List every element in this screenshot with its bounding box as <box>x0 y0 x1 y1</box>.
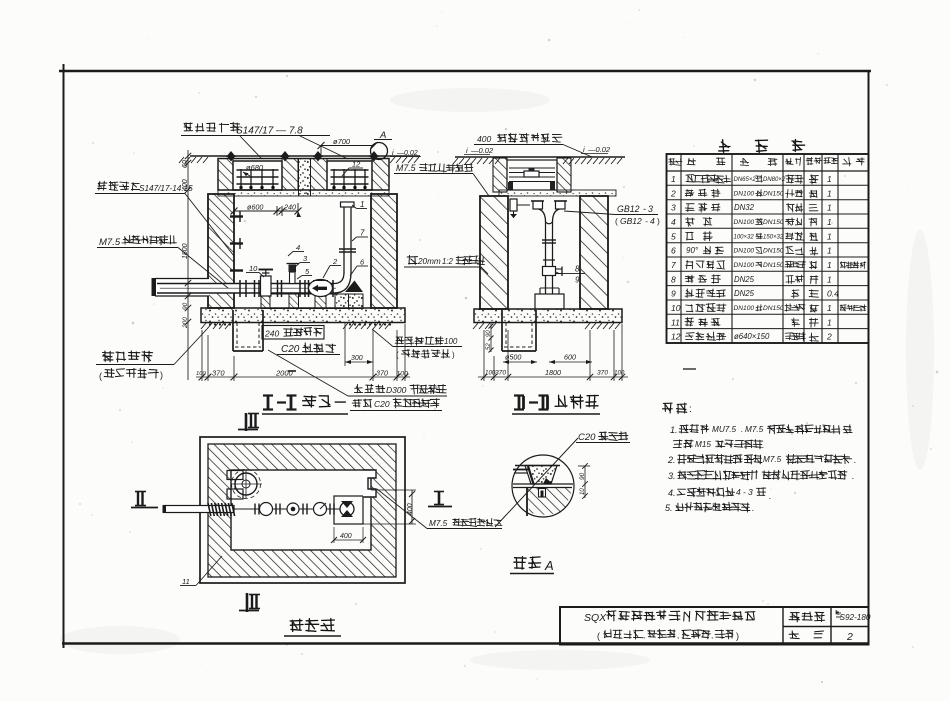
I-I section: bottom dimension line 370/2000/370/100 <box>196 324 410 381</box>
svg-text:M7.5: M7.5 <box>745 425 764 434</box>
svg-text:DN100: DN100 <box>734 305 755 312</box>
svg-text:DN32: DN32 <box>734 203 755 212</box>
svg-text:D300: D300 <box>386 385 407 395</box>
I-I section: ladder rungs on left wall <box>230 211 243 271</box>
caption: I-I section title <box>262 396 348 415</box>
materials table: title <box>719 140 805 153</box>
svg-text:1:2: 1:2 <box>442 257 454 266</box>
materials table row 6 <box>671 246 832 256</box>
plan view: section marker II bottom <box>239 593 260 612</box>
svg-text:i: i <box>583 145 585 154</box>
svg-text:DN25: DN25 <box>734 289 755 298</box>
svg-text:GB12: GB12 <box>617 204 640 214</box>
I-I section: pipe support blocks row <box>261 294 363 309</box>
I-I section: right wall (hatched) <box>371 194 397 308</box>
svg-text:A: A <box>544 558 554 573</box>
I-I section: pipe flange ticks <box>240 280 333 297</box>
svg-text:100: 100 <box>397 371 409 378</box>
svg-text:DN100: DN100 <box>734 262 755 269</box>
materials table row 7 <box>671 260 866 270</box>
II-II section: base slab stippled <box>474 309 622 323</box>
svg-text:-: - <box>645 216 648 226</box>
svg-text:1.: 1. <box>670 425 678 435</box>
svg-text:ø500: ø500 <box>505 353 521 362</box>
I-I section: ground line <box>179 156 420 163</box>
svg-text:100×32: 100×32 <box>734 234 755 240</box>
I-I section: 90 deg elbow to riser <box>334 273 351 294</box>
svg-text:ø700: ø700 <box>333 137 351 146</box>
drawing frame border <box>59 64 871 648</box>
plan view: pump bracket rects <box>227 471 243 480</box>
svg-text:3: 3 <box>648 204 653 214</box>
svg-text:9: 9 <box>575 276 580 285</box>
materials table row 9 <box>671 289 839 299</box>
label: M7.5 mortar plug with leader (plan) <box>377 489 502 529</box>
svg-text:(: ( <box>597 631 600 641</box>
I-I section: phi700 dim with A flag <box>318 137 378 157</box>
svg-text:DN150: DN150 <box>763 305 784 312</box>
svg-text:M7.5: M7.5 <box>429 519 448 528</box>
plan view: hatched wall ring <box>208 444 396 577</box>
svg-text:DN150: DN150 <box>763 248 784 255</box>
plan view: small 11 label with leader <box>180 556 222 586</box>
svg-text:SQX: SQX <box>584 612 607 624</box>
label: manhole cover ref S147/17-7.8 with leaders <box>181 122 348 159</box>
plan view: suction pipe entering through wall <box>163 503 235 516</box>
svg-text:DN65×2: DN65×2 <box>734 177 757 183</box>
svg-text:1: 1 <box>827 303 832 313</box>
svg-text:2.: 2. <box>667 455 676 465</box>
svg-text:1800: 1800 <box>545 368 561 377</box>
plan view: section marker II top <box>238 413 259 431</box>
svg-text:-: - <box>643 204 646 214</box>
materials table row 10 <box>671 303 866 313</box>
notes line 1b <box>673 440 764 450</box>
svg-text:—0.02: —0.02 <box>470 146 494 155</box>
svg-text:1: 1 <box>827 188 832 198</box>
svg-text:.: . <box>741 425 743 434</box>
svg-text:4: 4 <box>296 243 300 252</box>
I-I section: phi680 cover dim label <box>243 163 264 176</box>
II-II section: mortar strip under cover <box>499 190 616 196</box>
svg-text:M7.5: M7.5 <box>99 237 121 248</box>
detail A: right small dims 90/10 <box>578 463 590 499</box>
I-I section: cover band hatched piers <box>218 159 389 197</box>
label: M7.5 cement mortar fill with leader <box>97 235 228 288</box>
svg-text:10: 10 <box>249 264 258 273</box>
materials table row 1 <box>671 174 832 184</box>
svg-text:(: ( <box>396 351 399 360</box>
svg-text:,: , <box>677 631 679 640</box>
detail A: C20 concrete collar (stippled trapezoid) <box>513 466 560 485</box>
svg-text:,: , <box>643 631 645 640</box>
materials table row 2 <box>670 188 832 198</box>
I-I section: item numbers 10 4 3 5 2 6 <box>246 243 368 279</box>
label: 400 thick slag insulation layer with leader <box>474 133 592 157</box>
svg-text:1: 1 <box>671 174 676 184</box>
svg-text:370: 370 <box>597 370 608 377</box>
I-I section: check valve (lens shape) <box>309 280 333 297</box>
svg-text:370: 370 <box>212 369 225 378</box>
svg-text:,: , <box>711 631 713 640</box>
notes: heading shuoming <box>663 403 692 415</box>
photocopy smudges <box>60 88 934 670</box>
svg-text:52: 52 <box>486 343 492 350</box>
svg-text:1: 1 <box>827 246 832 256</box>
svg-text:M15: M15 <box>695 440 711 449</box>
svg-text:3: 3 <box>748 487 753 497</box>
svg-text:2: 2 <box>670 188 676 198</box>
svg-text:.: . <box>854 455 857 465</box>
svg-text:): ) <box>452 351 455 360</box>
II-II section: riser pipe down the shaft <box>542 222 556 294</box>
svg-text:12: 12 <box>352 160 361 169</box>
svg-text:1: 1 <box>827 217 832 227</box>
label: 20mm 1:2 cement mortar on wall <box>404 256 488 275</box>
svg-text:4.: 4. <box>668 488 676 498</box>
svg-text::: : <box>689 404 692 415</box>
title block: outer box and grid <box>560 607 869 645</box>
svg-text:.: . <box>852 471 855 481</box>
I-I section: mortar wedge marks on cover joints <box>226 151 379 162</box>
svg-text:6: 6 <box>671 246 676 256</box>
II-II section: pump pedestal block <box>535 288 564 309</box>
II-II section: left wall (hatched) <box>480 196 508 309</box>
caption: detail A title <box>510 557 554 574</box>
svg-text:DN100: DN100 <box>734 190 755 197</box>
svg-text:4: 4 <box>650 216 655 226</box>
I-I section: riser pipe (to fire connector) <box>339 202 356 273</box>
svg-text:4: 4 <box>736 487 741 497</box>
svg-text:.: . <box>752 503 755 513</box>
II-II section: fire connector Y pipe <box>531 201 567 224</box>
svg-text:C20: C20 <box>374 399 390 409</box>
svg-text:7: 7 <box>360 229 365 238</box>
svg-text:GB12: GB12 <box>620 216 642 226</box>
notes line 3 <box>668 470 855 481</box>
svg-text:100: 100 <box>444 337 458 346</box>
svg-text:1: 1 <box>827 317 832 327</box>
svg-text:400: 400 <box>477 134 491 144</box>
svg-text:M7.5: M7.5 <box>763 455 782 464</box>
title block: drawing title line 2 (valves, insulation) <box>597 629 739 641</box>
notes line 5 <box>665 502 755 513</box>
svg-text:90: 90 <box>579 472 586 480</box>
I-I section: inlet pipe sleeve through left wall <box>152 278 210 296</box>
svg-text:1: 1 <box>827 231 832 241</box>
II-II section: drain valve on riser <box>543 267 563 277</box>
svg-text:M7.5: M7.5 <box>396 163 416 173</box>
II-II section: hook bolt at wall top <box>510 199 530 218</box>
II-II section: soil ticks under slab <box>473 323 620 329</box>
detail A: pipe through floor <box>513 484 573 488</box>
II-II section: phi500 and 600 dims <box>503 353 592 365</box>
stray mark near table bottom <box>683 368 696 370</box>
I-I section: elbow support wedge (filled) <box>345 281 363 293</box>
I-I section: sump pit (water collection) <box>233 310 263 351</box>
I-I section: label 12 with leader <box>342 160 363 177</box>
svg-text:2: 2 <box>826 332 832 342</box>
svg-text:(: ( <box>615 216 618 226</box>
plan view: section marker II left <box>131 492 158 508</box>
materials table row 8 <box>671 274 832 284</box>
svg-text:2: 2 <box>846 631 853 643</box>
svg-text:370: 370 <box>376 369 388 378</box>
svg-text:MU7.5: MU7.5 <box>712 425 737 434</box>
materials table row 11 <box>671 317 832 327</box>
svg-text:20mm: 20mm <box>417 257 441 266</box>
svg-text:6: 6 <box>360 258 365 267</box>
detail A: masonry below floor (hatched) <box>527 488 573 516</box>
svg-text:DN150: DN150 <box>763 262 784 269</box>
I-I section: safety valve (small, on pipe top) <box>287 264 299 284</box>
label: M7.5 mortar angle fillet (between sections) <box>394 163 489 196</box>
label: 240 red brick masonry (boxed) <box>262 326 324 340</box>
svg-text:DN80×2: DN80×2 <box>763 177 786 183</box>
II-II section: labels 8/9 stacked <box>556 265 585 285</box>
title block: atlas number label <box>789 612 824 622</box>
svg-text:ø680: ø680 <box>246 163 264 172</box>
svg-text:1: 1 <box>827 203 832 213</box>
svg-text:): ) <box>160 370 163 380</box>
svg-text:1: 1 <box>827 174 832 184</box>
notes line 4 <box>668 487 772 501</box>
svg-text:240: 240 <box>283 203 296 212</box>
label: sump D300 concrete pipe set in C20 <box>268 350 447 411</box>
I-I section: inner dim phi600 / 240 <box>231 203 302 218</box>
I-I section: 300 dim under slab <box>345 323 373 366</box>
svg-text:(: ( <box>99 371 102 381</box>
svg-text:C20: C20 <box>281 344 300 355</box>
svg-text:90: 90 <box>182 302 189 310</box>
plan view: elbow block with flanges (riser location) <box>334 496 363 524</box>
svg-text:8: 8 <box>671 274 676 284</box>
svg-text:12: 12 <box>671 332 681 342</box>
notes line 2 <box>667 454 857 465</box>
svg-text:1: 1 <box>360 200 364 209</box>
svg-text:DN150: DN150 <box>763 219 784 226</box>
svg-text:DN100: DN100 <box>734 248 755 255</box>
svg-text:7: 7 <box>671 260 676 270</box>
plan view: outer wall rectangles <box>200 437 405 583</box>
svg-text:S92-180: S92-180 <box>840 613 871 622</box>
I-I section: brick pier stipple column <box>299 159 311 197</box>
svg-text:C20: C20 <box>578 432 596 443</box>
svg-text:DN25: DN25 <box>734 275 755 284</box>
svg-text:DN100: DN100 <box>734 219 755 226</box>
detail A: circle <box>512 455 574 517</box>
svg-text:300: 300 <box>351 355 363 362</box>
II-II section: insulated cover assembly <box>493 158 571 192</box>
svg-text:5: 5 <box>305 267 310 276</box>
plan view: wall penetration packing marks <box>208 503 211 516</box>
svg-text:2000: 2000 <box>275 369 294 378</box>
I-I section: soil hatch under slab <box>201 323 391 329</box>
svg-text:S147/17-14.15: S147/17-14.15 <box>139 184 193 193</box>
materials table row 5 <box>671 231 832 241</box>
svg-text:i: i <box>466 146 468 155</box>
svg-text:S147/17 — 7.8: S147/17 — 7.8 <box>236 126 303 137</box>
svg-text:2: 2 <box>332 257 338 266</box>
materials table row 12 <box>671 332 832 342</box>
svg-text:A: A <box>379 130 386 141</box>
label: X steel ladder ref S147/17-14.15 with leader <box>95 181 234 256</box>
I-I section: right manhole cover slab with rebar <box>327 161 372 190</box>
svg-text:600: 600 <box>564 353 576 362</box>
materials table row 3 <box>671 203 832 213</box>
label: rammed earth (no groundwater) with leader <box>96 329 207 381</box>
svg-text:1: 1 <box>827 260 832 270</box>
svg-text:90°: 90° <box>686 246 699 255</box>
svg-text:240: 240 <box>264 329 279 339</box>
svg-text:60: 60 <box>182 160 189 168</box>
svg-text:8: 8 <box>575 265 580 274</box>
detail A: leader and C20 label <box>495 432 630 527</box>
notes line 1 <box>670 424 852 435</box>
I-I section: top cover band outline <box>218 159 389 197</box>
I-I section: left vertical dimension chain <box>182 150 191 380</box>
svg-text:): ) <box>736 631 739 641</box>
caption: II-II section title <box>512 395 600 414</box>
I-I section: horizontal suction pipe <box>157 284 337 294</box>
I-I section: left wall (hatched) <box>208 194 234 308</box>
I-I section: slope label right of circle A <box>390 150 421 157</box>
svg-text:DN150: DN150 <box>763 190 784 197</box>
plan view: section marker I right <box>428 492 452 507</box>
svg-text:.: . <box>769 491 772 501</box>
svg-text:150×32: 150×32 <box>763 234 784 240</box>
caption: plan view title <box>284 619 341 637</box>
svg-text:3: 3 <box>671 203 676 213</box>
II-II section: bottom dim line 100/370/1800/370/100 <box>478 324 628 381</box>
title block: atlas number value S92-180 <box>835 610 871 622</box>
svg-text:10: 10 <box>580 488 586 495</box>
materials table row 4 <box>671 217 832 227</box>
svg-text:11: 11 <box>182 577 190 586</box>
svg-text:400: 400 <box>340 533 352 540</box>
svg-text:10: 10 <box>671 303 681 313</box>
svg-text:200: 200 <box>182 317 189 329</box>
II-II section: small 90/52 dim at wall <box>486 322 494 353</box>
svg-text:): ) <box>657 216 660 226</box>
svg-text:5: 5 <box>671 231 676 241</box>
I-I section: base slab (C20 concrete, stippled) <box>201 308 405 323</box>
I-I section: gate valve with stem and handwheel <box>259 270 274 297</box>
svg-text:1: 1 <box>827 274 832 284</box>
II-II section: right wall (hatched) <box>580 196 608 309</box>
II-II section: ground line with slope labels <box>453 145 625 164</box>
materials table: header cells <box>669 157 865 166</box>
I-I section: item number labels 1 and 7 <box>352 200 368 241</box>
svg-text:370: 370 <box>495 370 506 377</box>
title block: page number label <box>789 631 823 639</box>
svg-text:.: . <box>762 440 765 450</box>
svg-text:ø600: ø600 <box>247 203 263 212</box>
title block: drawing title line 1 (SQX pump connector installation) <box>584 610 755 624</box>
svg-text:ø640×150: ø640×150 <box>734 332 770 341</box>
II-II section: sump pit <box>502 310 536 351</box>
svg-text:-: - <box>743 487 746 497</box>
svg-text:0.4: 0.4 <box>827 289 839 299</box>
svg-text:9: 9 <box>671 289 676 299</box>
label: gravel bed 100 (with groundwater) <box>372 329 462 360</box>
label: GB12-3 (GB12-4) with leader <box>564 204 660 226</box>
svg-text:3: 3 <box>303 254 308 263</box>
plan view: 400 dims <box>331 490 416 543</box>
svg-text:100: 100 <box>196 371 206 377</box>
plan view: pipe centerline with valve symbols <box>234 503 340 516</box>
I-I section: left manhole cover slab with rebar <box>233 161 282 190</box>
svg-text:4: 4 <box>671 217 676 227</box>
svg-text:90: 90 <box>486 330 492 337</box>
plan view: wall notch for pipe outlet <box>363 470 376 497</box>
svg-text:3.: 3. <box>668 471 676 481</box>
plan view: pump circle with dashed ring <box>227 470 262 500</box>
svg-text:11: 11 <box>671 317 680 327</box>
materials table: grid <box>667 154 869 343</box>
label: C20 concrete under slab <box>277 343 340 355</box>
svg-text:—0.02: —0.02 <box>396 150 418 157</box>
svg-text:—0.02: —0.02 <box>587 145 611 154</box>
detail-A reference circle and flag <box>371 130 393 160</box>
svg-text:100: 100 <box>614 370 625 377</box>
svg-text:5.: 5. <box>665 503 673 513</box>
